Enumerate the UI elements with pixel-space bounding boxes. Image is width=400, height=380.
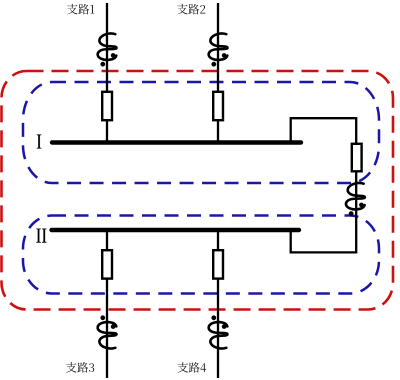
label 支路2	[177, 4, 205, 15]
resistor branch1	[102, 92, 112, 120]
resistor branch3	[102, 250, 112, 278]
wire bus-tie link	[291, 118, 357, 252]
bus II differential zone (blue dashed, bottom)	[23, 216, 379, 294]
label bus I	[37, 134, 41, 148]
current transformer CT3	[98, 315, 117, 348]
resistor bus-tie	[352, 144, 362, 172]
label 支路3	[66, 362, 94, 373]
bus I	[52, 140, 301, 144]
wire branch2 top	[217, 3, 219, 142]
current transformer CT2	[209, 33, 228, 66]
wire branch3 bottom	[106, 230, 108, 378]
wire branch1 top	[106, 3, 108, 142]
protection zone boundary (red dashed, outer)	[2, 71, 394, 310]
label 支路4	[177, 362, 206, 373]
resistor branch4	[213, 250, 223, 278]
resistor branch2	[213, 92, 223, 120]
bus II	[52, 228, 300, 232]
current transformer CT4	[209, 315, 228, 348]
label bus II	[36, 229, 46, 243]
current transformer CT1	[98, 33, 117, 66]
bus-tie reactor coil	[346, 183, 365, 216]
wire branch4 bottom	[217, 230, 219, 378]
label 支路1	[67, 4, 94, 15]
bus I differential zone (blue dashed, top)	[23, 82, 379, 183]
